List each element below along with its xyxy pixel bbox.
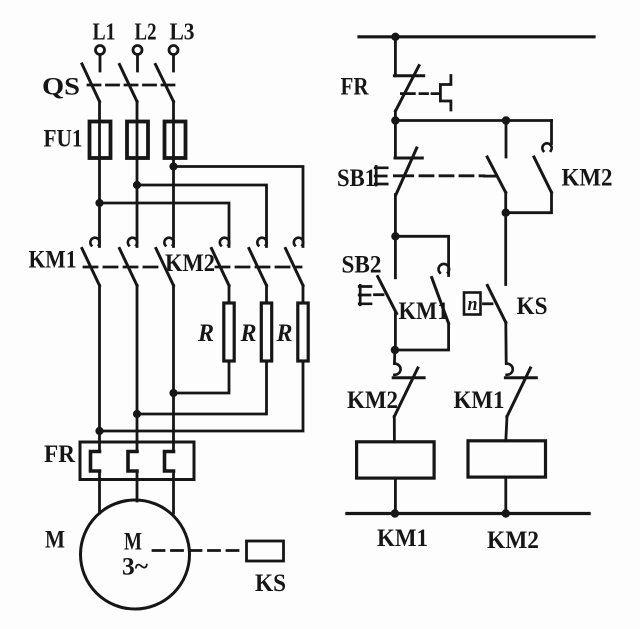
switch QS pole 3 blade: [156, 65, 174, 102]
wire L1 terminal stub: [99, 55, 102, 71]
SB1 button actuator E: [375, 167, 387, 186]
wire KM2 pole 5 to R2: [265, 286, 268, 304]
contactor KM2 contact 5 arc: [257, 238, 266, 246]
contactor KM1 contact 1 blade: [82, 249, 100, 286]
svg-text:n: n: [468, 294, 478, 315]
node L3 branch: [169, 162, 177, 170]
KM2 aux left bottom wire: [504, 193, 507, 213]
wire QS to FU1 pole 1: [98, 102, 101, 122]
contactor KM1 contact 1 arc: [90, 238, 99, 246]
svg-text:KM2: KM2: [165, 250, 215, 277]
KM2 NC arc: [394, 364, 400, 375]
wire R3 bottom to pole 1: [100, 361, 304, 431]
wire FU1 to KM1 contact pole 3: [172, 123, 175, 247]
KM2 aux parallel left leg top wire: [505, 121, 508, 158]
SB2 blade: [378, 277, 397, 314]
node R2 join: [133, 410, 141, 418]
resistor R1: [224, 303, 234, 361]
wire KM1 pole 1 to FR: [98, 286, 101, 452]
svg-text:KM1: KM1: [29, 247, 77, 274]
switch QS pole 1 blade: [82, 64, 100, 102]
switch QS link (dashed): [88, 84, 177, 87]
wire KM1 pole 3 to FR: [172, 286, 175, 452]
fuse FU1 pole 3: [165, 122, 186, 159]
wire L3 feed to KM2 pole 6: [174, 167, 304, 247]
KM2 aux left tick: [485, 175, 496, 178]
node L1 branch: [95, 199, 103, 207]
KM1 aux arc: [439, 264, 450, 273]
wire L2 terminal stub: [136, 55, 139, 71]
KM2 NC seat bar: [393, 376, 424, 379]
terminal L3: [169, 46, 178, 55]
wire top bus: [359, 35, 594, 38]
node B: [502, 209, 510, 217]
SB1 blade: [396, 148, 417, 195]
wire node A to KM2 branch: [395, 119, 551, 122]
button SB1 top wire: [394, 121, 397, 158]
svg-text:M: M: [124, 529, 142, 556]
contactor KM2 contact 6 blade: [286, 249, 304, 286]
KM1 NC seat bar: [505, 376, 536, 379]
svg-text:R: R: [276, 320, 293, 347]
wire L2 feed to KM2 pole 5: [137, 185, 267, 247]
wire FU1 to KM1 contact pole 2: [136, 123, 139, 247]
svg-text:R: R: [197, 320, 214, 347]
wire KM1 coil to bus: [394, 478, 397, 513]
svg-text:L1: L1: [93, 20, 116, 46]
terminal L2: [133, 46, 142, 55]
KS n box: [464, 293, 481, 315]
SB1 tick: [394, 174, 412, 177]
wire bottom bus: [347, 512, 589, 515]
contactor KM1 contact 2 blade: [120, 249, 138, 286]
svg-text:L2: L2: [135, 20, 157, 46]
FR heater 2: [128, 452, 137, 472]
KM1 aux bottom wire: [395, 324, 449, 351]
wire L3 terminal stub: [172, 55, 175, 71]
wire FR to node A: [394, 111, 397, 121]
svg-text:R: R: [240, 320, 257, 347]
node bottom KM2: [502, 509, 510, 517]
wire QS to FU1 pole 2: [136, 102, 139, 122]
KM1 NC blade: [507, 368, 530, 417]
FR NC contact tick: [401, 92, 414, 95]
svg-text:3~: 3~: [122, 554, 148, 581]
svg-text:KM2: KM2: [562, 165, 613, 192]
motor M circle: [81, 500, 190, 609]
FR heater 3: [165, 452, 174, 472]
contactor KM1 contact 3 blade: [156, 249, 174, 286]
terminal L1: [96, 46, 105, 55]
svg-text:FR: FR: [341, 74, 370, 101]
KM2 NC blade: [394, 368, 418, 417]
wire FR to motor 1: [98, 471, 101, 513]
wire QS to FU1 pole 3: [172, 102, 175, 122]
svg-text:KS: KS: [255, 570, 286, 597]
wire SB2 to node D: [394, 314, 397, 351]
contactor KM2 contact 4 arc: [220, 238, 229, 246]
button SB2 top wire: [394, 236, 397, 277]
wire KM2 coil to bus: [504, 477, 507, 513]
KS link dash: [484, 302, 493, 305]
svg-text:FU1: FU1: [44, 126, 83, 153]
FR NC contact seat bar: [394, 74, 423, 77]
KM2 aux right blade: [534, 157, 552, 193]
KM2 aux left blade: [487, 157, 506, 193]
contactor KM2 contact 6 arc: [294, 238, 303, 246]
node top bus tap: [391, 33, 399, 41]
link KM2 contacts (dashed): [216, 266, 301, 269]
wire to KM1 coil: [393, 417, 396, 442]
SB1 seat bar: [395, 157, 422, 160]
wire FR to motor 2: [136, 471, 139, 501]
resistor R3: [298, 303, 308, 361]
node bottom KM1: [391, 509, 399, 517]
KM1 NC interlock arc: [507, 364, 513, 375]
node R1 join: [169, 389, 177, 397]
node A2: [502, 116, 510, 124]
wire L1 feed to KM2 pole 4: [100, 203, 230, 247]
contactor KM1 contact 2 arc: [128, 238, 137, 246]
FR heater 1: [91, 452, 100, 472]
svg-text:SB1: SB1: [337, 165, 376, 192]
node A: [391, 116, 399, 124]
contactor KM1 contact 3 arc: [164, 238, 173, 246]
wire SB1 to node C: [394, 195, 397, 237]
svg-text:SB2: SB2: [342, 252, 382, 279]
svg-text:FR: FR: [44, 441, 76, 468]
thermal relay FR box: [80, 442, 194, 480]
contactor KM2 contact 4 blade: [212, 249, 230, 286]
KM2 aux right leg top wire: [550, 121, 553, 144]
FR NC contact blade: [396, 66, 420, 111]
wire bus to FR contact: [394, 37, 397, 76]
KM1 aux blade: [432, 278, 449, 324]
wire KS to KM1 NC: [504, 323, 507, 364]
speed relay KS body: [247, 541, 284, 561]
SB1 link (dashed): [420, 174, 484, 177]
wire to KM2 coil: [506, 417, 507, 441]
svg-text:KM1: KM1: [399, 298, 449, 325]
link KM1 contacts (dashed): [84, 266, 162, 269]
fuse FU1 pole 1: [90, 122, 111, 159]
KM2 aux right bottom wire: [506, 193, 552, 213]
wire KM2 pole 4 to R1: [228, 286, 231, 304]
contactor KM2 contact 5 blade: [249, 249, 267, 286]
speed relay KS contact top wire: [504, 213, 507, 285]
coil KM2: [468, 441, 546, 477]
wire R2 bottom to pole 2: [137, 361, 267, 414]
shaft link to KS (dashed): [153, 549, 245, 552]
wire R1 bottom to pole 3: [174, 361, 230, 393]
coil KM1: [357, 442, 435, 478]
KM2 aux right arc: [542, 143, 551, 151]
wire FR to motor 3: [172, 471, 175, 513]
svg-text:KS: KS: [517, 293, 548, 320]
svg-text:QS: QS: [42, 74, 80, 101]
resistor R2: [261, 303, 271, 361]
wire KM2 pole 6 to R3: [302, 286, 305, 304]
switch QS pole 2 blade: [120, 65, 138, 102]
svg-text:KM1: KM1: [454, 387, 505, 414]
node D: [391, 346, 399, 354]
svg-text:L3: L3: [170, 20, 195, 46]
node L2 branch: [133, 181, 141, 189]
SB2 actuator E: [359, 285, 371, 305]
wire FU1 to KM1 contact pole 1: [98, 123, 101, 247]
KM1 aux branch top wire: [395, 236, 448, 275]
node C: [391, 232, 399, 240]
wire KM1 pole 2 to FR: [136, 286, 139, 452]
KM2 NC interlock wire: [393, 350, 396, 364]
svg-text:KM1: KM1: [377, 525, 428, 552]
SB2 link dash: [375, 293, 384, 296]
FR trip actuator: [440, 76, 451, 111]
FR trip link (dashed): [420, 92, 439, 95]
KS blade: [487, 285, 505, 322]
svg-text:KM2: KM2: [487, 527, 539, 554]
fuse FU1 pole 2: [127, 122, 148, 159]
svg-text:KM2: KM2: [347, 387, 398, 414]
node R3 join: [95, 427, 103, 435]
svg-text:M: M: [45, 527, 65, 554]
